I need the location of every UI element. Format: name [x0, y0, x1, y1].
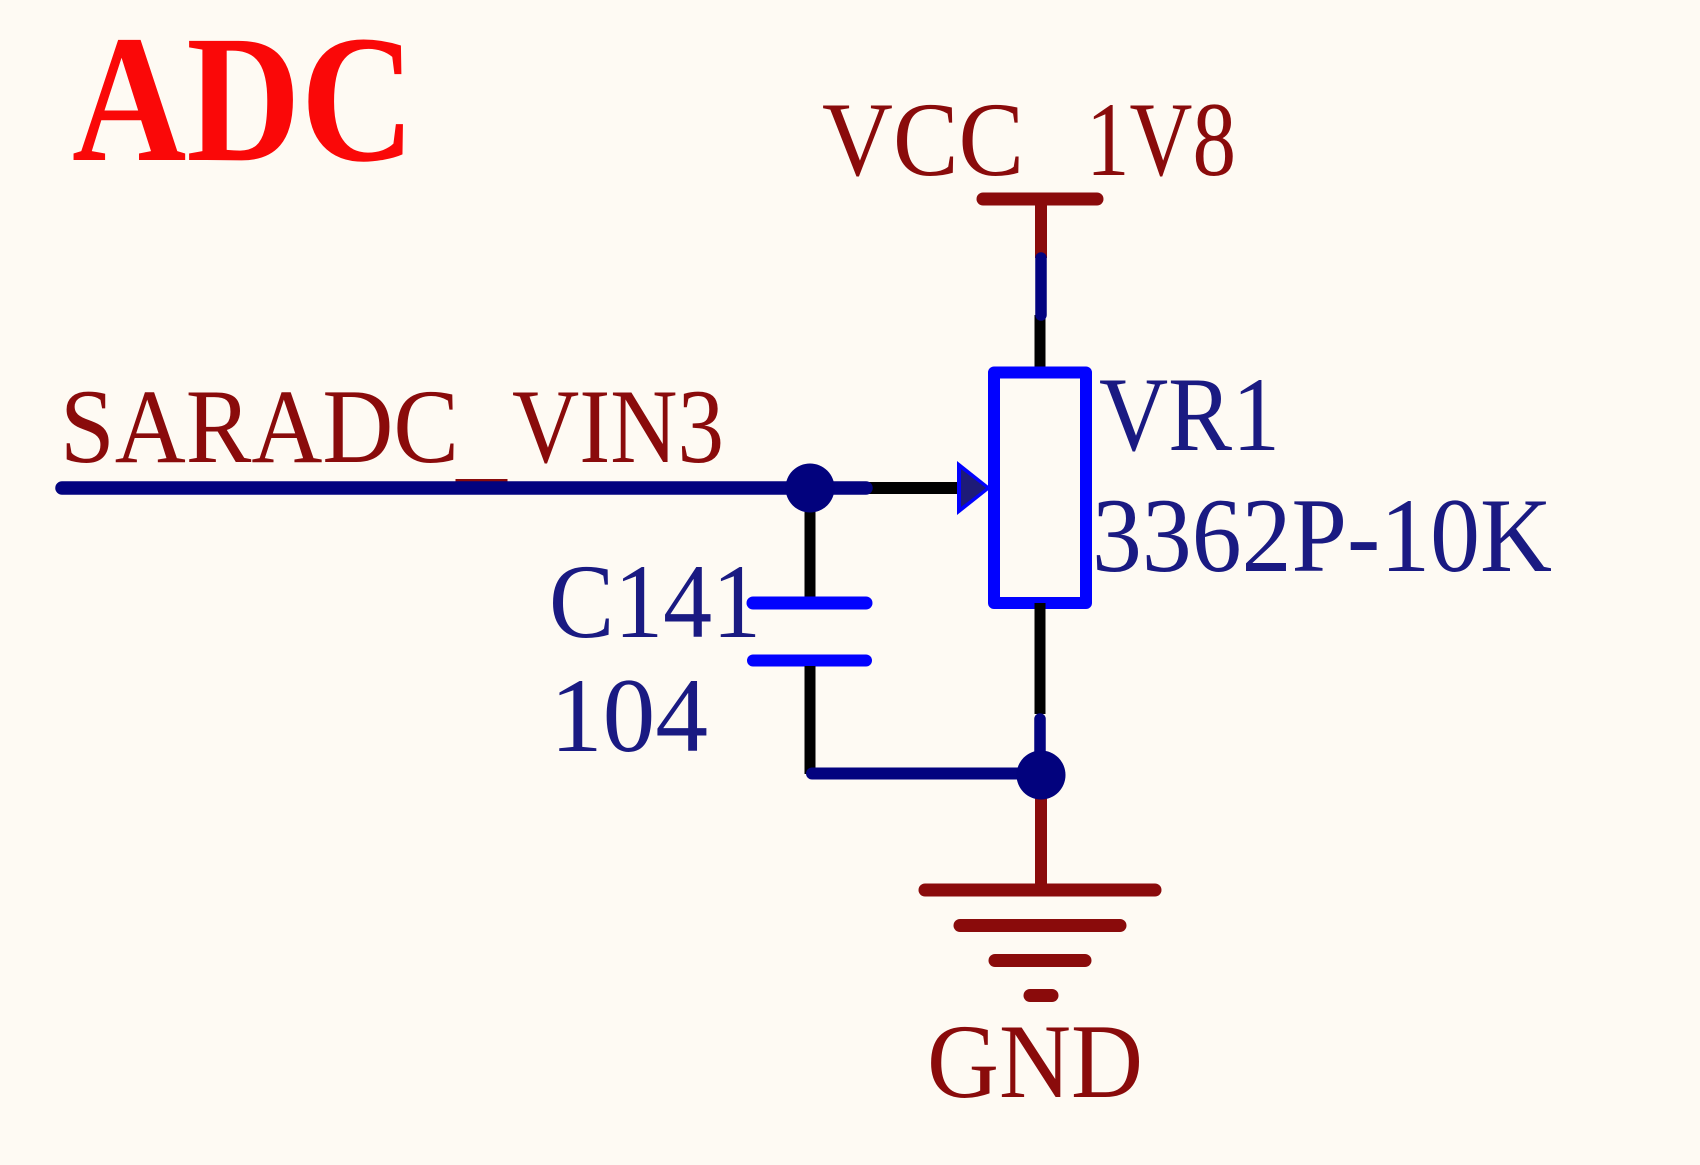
wire maroon vertical to GND [1035, 775, 1047, 890]
wire black vertical VR1 pin 2 down [1035, 603, 1046, 714]
power symbol VCC_1V8 stem [1035, 200, 1047, 258]
ground symbol bar 3 [995, 954, 1085, 967]
net label underscore [456, 479, 508, 484]
svg-text:C141: C141 [549, 543, 761, 660]
ground symbol bar 2 [960, 919, 1120, 932]
ground symbol bar 1 [925, 884, 1155, 897]
node junction dot B [1017, 751, 1066, 800]
ground symbol bar 4 [1030, 989, 1052, 1002]
wire navy horizontal bottom [812, 768, 1041, 780]
potentiometer VR1 body [994, 373, 1086, 604]
wire black horizontal to VR1 wiper [860, 482, 958, 494]
svg-text:1V8: 1V8 [1086, 81, 1236, 198]
capacitor C141 bottom plate [753, 655, 866, 667]
node junction dot A [786, 464, 835, 513]
wire black vertical to VR1 pin 1 [1035, 315, 1046, 373]
power symbol VCC_1V8 bar [983, 193, 1097, 206]
svg-text:VCC: VCC [822, 81, 1024, 198]
wire navy stub below VCC [1035, 258, 1047, 315]
capacitor C141 top plate [753, 597, 866, 610]
svg-text:VR1: VR1 [1099, 356, 1280, 473]
wire black vertical C141 to bottom net [805, 666, 816, 774]
wire navy stub above junction B [1034, 719, 1046, 765]
svg-text:3362P-10K: 3362P-10K [1092, 477, 1552, 594]
svg-text:GND: GND [927, 1003, 1143, 1120]
svg-text:ADC: ADC [72, 0, 415, 200]
svg-text:104: 104 [550, 657, 708, 774]
potentiometer VR1 wiper arrow [957, 461, 991, 515]
svg-text:VIN3: VIN3 [512, 368, 724, 485]
wire SARADC_VIN3 horizontal navy [62, 481, 866, 495]
svg-text:SARADC: SARADC [60, 368, 459, 485]
wire black vertical junction to C141 [805, 488, 816, 597]
